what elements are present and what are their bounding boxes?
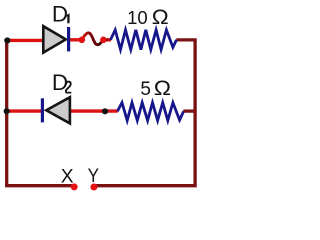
svg-text:Ω: Ω bbox=[152, 5, 169, 29]
svg-text:Y: Y bbox=[88, 165, 99, 186]
svg-text:5: 5 bbox=[140, 79, 151, 100]
svg-text:X: X bbox=[61, 166, 74, 187]
svg-text:Ω: Ω bbox=[154, 76, 171, 100]
svg-text:D: D bbox=[52, 1, 68, 26]
svg-text:10: 10 bbox=[127, 7, 148, 28]
